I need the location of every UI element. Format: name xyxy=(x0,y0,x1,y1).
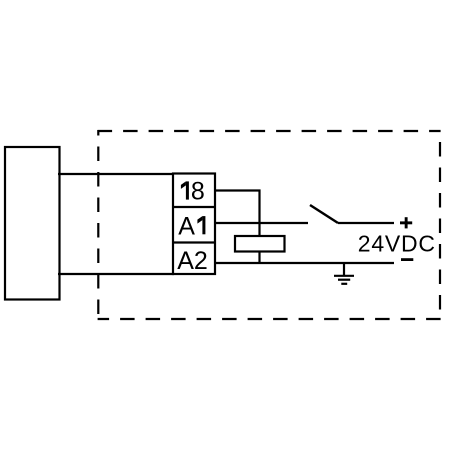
wire: terminal 18 output xyxy=(215,191,260,237)
terminal cell divider 18/A1 xyxy=(173,206,215,208)
terminal label A1 xyxy=(178,212,205,240)
ground symbol xyxy=(334,276,354,284)
plus terminal symbol xyxy=(400,217,412,228)
dashed enclosure bottom edge xyxy=(98,318,441,320)
terminal label 18 xyxy=(181,178,205,206)
wire: switch to plus terminal xyxy=(338,222,394,224)
relay module body K1 xyxy=(5,147,60,300)
svg-text:24VDC: 24VDC xyxy=(358,231,436,257)
wire: module to terminal block bottom xyxy=(58,273,174,275)
wire: module to terminal block top xyxy=(58,173,174,175)
terminal block outline xyxy=(173,174,215,275)
dashed enclosure top edge xyxy=(98,130,441,132)
dashed enclosure right edge xyxy=(439,131,441,319)
switch S1 blade xyxy=(310,205,338,223)
wire: load to A2 rail xyxy=(258,252,260,264)
dashed enclosure left edge xyxy=(97,130,99,319)
terminal cell divider A1/A2 xyxy=(173,241,215,243)
svg-text:8: 8 xyxy=(191,178,205,206)
wire: terminal A2 to minus rail xyxy=(215,262,394,264)
load resistor xyxy=(235,236,285,252)
wire: terminal A1 to switch xyxy=(215,222,308,224)
svg-text:A: A xyxy=(178,212,195,240)
minus terminal symbol xyxy=(401,258,413,261)
ground stub wire xyxy=(343,263,345,276)
svg-text:A2: A2 xyxy=(177,247,208,275)
